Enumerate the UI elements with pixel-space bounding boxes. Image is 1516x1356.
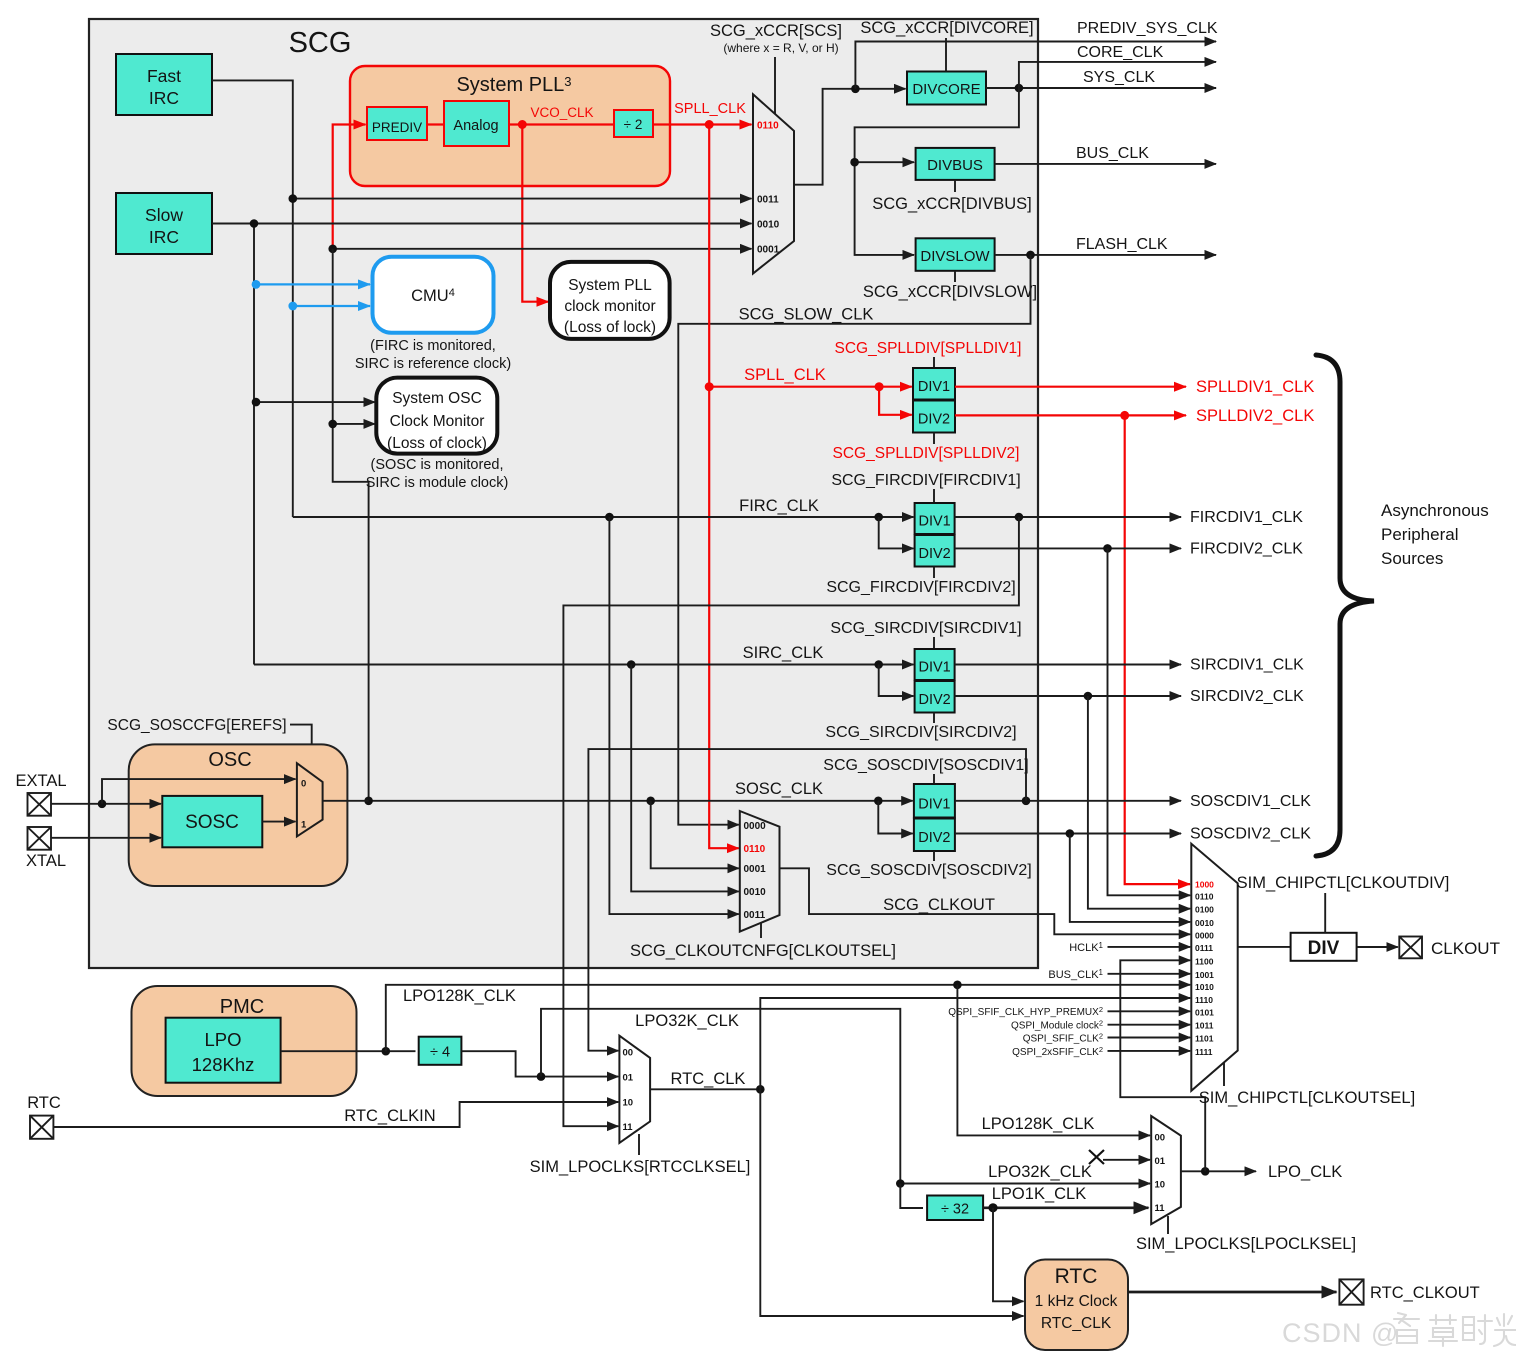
svg-text:FIRCDIV1_CLK: FIRCDIV1_CLK — [1190, 509, 1303, 526]
wire div4 out to RTCCLKSEL 01 — [461, 1051, 618, 1076]
block System PLL clock monitor — [550, 262, 670, 339]
block Analog — [444, 101, 509, 146]
svg-text:DIVBUS: DIVBUS — [927, 157, 983, 174]
svg-text:PMC: PMC — [220, 996, 264, 1018]
wire PREDIV_SYS_CLK — [855, 42, 1216, 89]
svg-text:RTC_CLKOUT: RTC_CLKOUT — [1370, 1284, 1480, 1302]
svg-text:0111: 0111 — [1195, 943, 1213, 953]
svg-text:QSPI_2xSFIF_CLK2: QSPI_2xSFIF_CLK2 — [1012, 1045, 1103, 1058]
svg-text:(FIRC is monitored,: (FIRC is monitored, — [370, 338, 496, 354]
wire SOSC_CLK row to DIV1 — [369, 800, 913, 802]
svg-text:RTC: RTC — [1055, 1265, 1098, 1288]
symbol XTAL pad — [28, 827, 52, 850]
junction DIVBUS input — [850, 158, 859, 167]
svg-text:IRC: IRC — [149, 227, 179, 247]
wire SOSCDIV1_CLK output — [955, 800, 1181, 802]
svg-text:1111: 1111 — [1195, 1047, 1213, 1057]
svg-text:PREDIV_SYS_CLK: PREDIV_SYS_CLK — [1077, 20, 1218, 37]
svg-text:PREDIV: PREDIV — [372, 120, 422, 135]
svg-text:LPO_CLK: LPO_CLK — [1268, 1163, 1342, 1181]
wire FIRCDIV1_CLK output — [955, 516, 1181, 518]
wire SIRC_CLK row to DIV1 — [254, 664, 913, 666]
leader SIRCDIV2 register — [933, 713, 935, 724]
wire SOSC vertical from OSC output up — [333, 249, 369, 801]
block SOSC DIV2 — [914, 819, 955, 852]
svg-text:00: 00 — [623, 1048, 634, 1059]
wire SIRC to OSC monitor — [256, 401, 375, 403]
svg-text:÷ 32: ÷ 32 — [941, 1202, 969, 1218]
block RTC — [1025, 1260, 1128, 1351]
wire LPO32K to LPOCLKSEL 10 — [900, 1183, 1150, 1185]
svg-text:128Khz: 128Khz — [192, 1054, 255, 1075]
junction VCO_CLK — [518, 120, 527, 129]
block FIRC DIV1 — [915, 503, 955, 534]
leader LPOCLKSEL register — [1167, 1216, 1169, 1234]
svg-text:HCLK1: HCLK1 — [1069, 941, 1103, 954]
svg-text:0110: 0110 — [744, 844, 766, 855]
svg-text:0010: 0010 — [1195, 918, 1214, 928]
svg-text:DIV: DIV — [1308, 938, 1340, 959]
svg-text:SCG_SPLLDIV[SPLLDIV2]: SCG_SPLLDIV[SPLLDIV2] — [833, 445, 1020, 462]
svg-text:SYS_CLK: SYS_CLK — [1083, 69, 1155, 86]
wire FIRCDIV2 feedback to CLKOUTSEL 0110 — [1108, 548, 1191, 895]
symbol RTC pad — [30, 1116, 53, 1139]
wire FIRCDIV2_CLK output — [955, 547, 1181, 549]
junction LPO128K branch down — [953, 981, 962, 990]
wire FIRCDIV1 branch to RTCCLKSEL 11 — [563, 517, 1019, 1126]
svg-text:Fast: Fast — [147, 66, 181, 86]
wire RTC_CLKOUT (thick) — [1128, 1291, 1337, 1294]
wire SOSC to OSC monitor — [333, 423, 375, 425]
svg-text:FIRCDIV2_CLK: FIRCDIV2_CLK — [1190, 541, 1303, 558]
wire SOSCDIV1 branch to RTCCLKSEL 00 — [588, 749, 1026, 1051]
svg-text:DIV1: DIV1 — [918, 660, 950, 676]
svg-text:SPLLDIV1_CLK: SPLLDIV1_CLK — [1196, 378, 1314, 396]
svg-text:LPO32K_CLK: LPO32K_CLK — [635, 1012, 739, 1030]
svg-text:0001: 0001 — [744, 864, 767, 875]
svg-text:11: 11 — [623, 1122, 634, 1133]
block divide-by-4 — [419, 1037, 462, 1065]
svg-text:10: 10 — [623, 1098, 634, 1109]
svg-text:0010: 0010 — [757, 220, 780, 231]
svg-text:SIRCDIV1_CLK: SIRCDIV1_CLK — [1190, 657, 1304, 674]
svg-text:1100: 1100 — [1195, 956, 1214, 966]
block SIRC DIV2 — [915, 681, 955, 713]
svg-text:DIV1: DIV1 — [918, 514, 950, 530]
wire FIRC_CLK row to DIV1 — [293, 516, 914, 518]
svg-text:CMU4: CMU4 — [411, 287, 455, 305]
brace Asynchronous Peripheral Sources — [1316, 355, 1374, 856]
svg-text:clock monitor: clock monitor — [564, 298, 655, 315]
wire DIVCORE feedback to DIVBUS and DIVSLOW — [855, 88, 1019, 162]
wire SOSC up red segment into PREDIV — [333, 125, 366, 249]
svg-text:CLKOUT: CLKOUT — [1431, 939, 1500, 958]
svg-text:EXTAL: EXTAL — [15, 772, 66, 790]
wire SCG_CLKOUT output to CLKOUTSEL 0000 — [780, 868, 1191, 934]
wire PREDIV to Analog (red) — [427, 123, 444, 125]
svg-text:LPO1K_CLK: LPO1K_CLK — [992, 1185, 1086, 1203]
leader CLKOUTCNFG register — [760, 923, 762, 938]
block DIV — [1291, 933, 1357, 961]
svg-text:SIRCDIV2_CLK: SIRCDIV2_CLK — [1190, 688, 1304, 705]
svg-text:SCG_CLKOUTCNFG[CLKOUTSEL]: SCG_CLKOUTCNFG[CLKOUTSEL] — [630, 942, 896, 960]
wire SOSC branch to SCG CLKOUT mux 0001 — [651, 801, 739, 869]
wire FIRC vertical down to FIRC_CLK row — [292, 199, 294, 517]
svg-text:LPO128K_CLK: LPO128K_CLK — [982, 1115, 1095, 1133]
svg-text:10: 10 — [1155, 1180, 1166, 1191]
block DIVSLOW — [916, 238, 995, 270]
wire SOSC to DIV2 — [878, 801, 912, 834]
svg-text:0100: 0100 — [1195, 905, 1214, 915]
svg-text:DIVSLOW: DIVSLOW — [920, 248, 990, 265]
svg-text:SOSC: SOSC — [185, 812, 239, 833]
block PMC container — [132, 986, 357, 1096]
symbol CLKOUT pad — [1399, 937, 1422, 959]
wire SPLLDIV2 red feedback to CLKOUTSEL 1000 — [1125, 415, 1190, 884]
wire SPLL to DIV2 — [879, 387, 912, 415]
wire LPO128K_CLK up and right to CLKOUTSEL 1010 — [386, 985, 1190, 1051]
wire SCG_SLOW_CLK to CLKOUT mux 0000 — [678, 255, 1030, 825]
svg-text:SIRC is reference clock): SIRC is reference clock) — [355, 356, 511, 372]
wire QSPI_SFIF_CLK_HYP_PREMUX input 0101 — [1108, 1010, 1191, 1012]
wire DIV to CLKOUT pad — [1357, 946, 1398, 948]
svg-text:SIM_CHIPCTL[CLKOUTSEL]: SIM_CHIPCTL[CLKOUTSEL] — [1199, 1089, 1415, 1107]
wire SPLL_CLK red vertical to CLKOUT mux 0110 — [709, 125, 739, 849]
wire LPO32K down into div32 — [900, 1184, 923, 1209]
svg-text:DIV1: DIV1 — [918, 797, 950, 813]
svg-text:DIV2: DIV2 — [918, 692, 950, 708]
svg-text:RTC_CLKIN: RTC_CLKIN — [344, 1107, 435, 1125]
leader RTCCLKSEL register — [638, 1134, 640, 1155]
wire SOSCDIV2_CLK output — [955, 833, 1181, 835]
svg-text:RTC_CLK: RTC_CLK — [671, 1070, 746, 1088]
wire CORE_CLK — [1019, 62, 1216, 88]
svg-text:SIRC_CLK: SIRC_CLK — [743, 644, 824, 662]
block divide-by-32 — [927, 1196, 983, 1221]
svg-text:1 kHz Clock: 1 kHz Clock — [1035, 1293, 1118, 1310]
svg-text:Clock Monitor: Clock Monitor — [390, 413, 485, 430]
block PREDIV — [367, 107, 427, 140]
leader SCS label to mux — [774, 57, 776, 114]
leader CLKOUTSEL register — [1223, 1063, 1225, 1086]
wire LPO_CLK feedback up to CLKOUTSEL 1100 — [1120, 960, 1205, 1171]
svg-text:SCG_FIRCDIV[FIRCDIV1]: SCG_FIRCDIV[FIRCDIV1] — [831, 472, 1020, 489]
svg-text:XTAL: XTAL — [26, 852, 66, 870]
block Slow IRC — [116, 193, 212, 254]
svg-text:1001: 1001 — [1195, 970, 1214, 980]
mux SCS (system clock select) — [753, 94, 794, 273]
svg-text:0010: 0010 — [744, 887, 767, 898]
block DIVCORE — [907, 72, 986, 105]
wire BUS_CLK — [995, 163, 1216, 165]
svg-text:QSPI_SFIF_CLK_HYP_PREMUX2: QSPI_SFIF_CLK_HYP_PREMUX2 — [948, 1005, 1103, 1018]
svg-text:Analog: Analog — [453, 118, 498, 134]
wire SIRC to DIV2 — [879, 665, 914, 697]
wire SOSC to OSC mux input 1 — [262, 821, 295, 823]
svg-text:DIV2: DIV2 — [918, 830, 950, 846]
wire LPO output to div4 — [281, 1050, 416, 1052]
block SOSC — [162, 796, 262, 847]
svg-text:(Loss of lock): (Loss of lock) — [564, 319, 656, 336]
svg-text:QSPI_Module clock2: QSPI_Module clock2 — [1011, 1019, 1103, 1032]
block OSC container — [129, 744, 348, 886]
wire SPLLDIV2_CLK output — [955, 414, 1186, 416]
wire HCLK input 0111 — [1108, 946, 1191, 948]
block divide-by-2 — [614, 110, 653, 137]
svg-text:0110: 0110 — [757, 121, 779, 132]
svg-text:CSDN @: CSDN @ — [1282, 1318, 1399, 1348]
wire EXTAL to SOSC — [51, 803, 161, 805]
wire SIRCDIV1_CLK output — [955, 664, 1181, 666]
svg-text:FLASH_CLK: FLASH_CLK — [1076, 236, 1168, 253]
svg-text:SOSCDIV2_CLK: SOSCDIV2_CLK — [1190, 826, 1311, 843]
wire FIRC to DIV2 — [879, 517, 914, 548]
junction DIVCORE output — [1015, 84, 1024, 93]
wire FIRC to CMU (blue) — [293, 305, 370, 307]
block System PLL container — [350, 66, 670, 186]
symbol X not-available — [1089, 1150, 1104, 1164]
junction FIRC at 0011 row — [289, 194, 298, 203]
block SOSC DIV1 — [914, 784, 955, 818]
wire FLASH_CLK — [995, 254, 1216, 256]
watermark CSDN — [1282, 1313, 1516, 1348]
wire SIRCDIV2_CLK output — [955, 695, 1181, 697]
svg-text:SCG_CLKOUT: SCG_CLKOUT — [883, 896, 995, 914]
svg-text:DIV2: DIV2 — [918, 412, 950, 428]
junction DIVSLOW output — [1026, 251, 1035, 260]
svg-text:SPLL_CLK: SPLL_CLK — [744, 366, 826, 384]
wire SIRC to CMU (blue) — [256, 283, 370, 285]
mux RTCCLKSEL — [619, 1036, 650, 1143]
svg-text:÷ 4: ÷ 4 — [430, 1045, 450, 1061]
SCG module box — [89, 19, 1038, 968]
svg-text:RTC: RTC — [27, 1094, 61, 1112]
block LPO 128Khz — [166, 1018, 281, 1083]
svg-text:DIVCORE: DIVCORE — [912, 81, 980, 98]
wire SPLLDIV1_CLK output — [955, 386, 1186, 388]
svg-text:RTC_CLK: RTC_CLK — [1041, 1315, 1112, 1332]
svg-text:SCG_SPLLDIV[SPLLDIV1]: SCG_SPLLDIV[SPLLDIV1] — [835, 340, 1022, 357]
wire div32 down to RTC block — [993, 1208, 1024, 1302]
svg-text:SOSCDIV1_CLK: SOSCDIV1_CLK — [1190, 793, 1311, 810]
svg-text:SIM_LPOCLKS[RTCCLKSEL]: SIM_LPOCLKS[RTCCLKSEL] — [530, 1158, 751, 1176]
wire LPO_CLK output — [1181, 1170, 1256, 1172]
wire FIRC branch to SCG CLKOUT mux 0011 — [609, 517, 738, 914]
wire DIVCORE output SYS_CLK — [986, 87, 1216, 89]
svg-text:SCG_SIRCDIV[SIRCDIV1]: SCG_SIRCDIV[SIRCDIV1] — [830, 620, 1021, 637]
wire VCO_CLK down to PLL monitor (red) — [522, 125, 548, 302]
block DIVBUS — [916, 148, 995, 180]
wire SPLL_CLK row to DIV1 — [709, 386, 912, 388]
svg-text:(where x = R, V, or H): (where x = R, V, or H) — [723, 41, 838, 55]
leader FIRCDIV2 register — [933, 567, 935, 579]
svg-text:SPLLDIV2_CLK: SPLLDIV2_CLK — [1196, 407, 1314, 425]
svg-text:Sources: Sources — [1381, 549, 1443, 568]
svg-text:LPO32K_CLK: LPO32K_CLK — [988, 1163, 1092, 1181]
svg-text:Peripheral: Peripheral — [1381, 525, 1459, 544]
svg-text:SCG_FIRCDIV[FIRCDIV2]: SCG_FIRCDIV[FIRCDIV2] — [826, 579, 1015, 596]
wire Analog to div2 to mux 0110 (red) — [509, 123, 614, 125]
svg-text:VCO_CLK: VCO_CLK — [530, 105, 593, 120]
svg-text:LPO: LPO — [204, 1029, 241, 1050]
svg-text:0000: 0000 — [1195, 930, 1214, 940]
svg-text:Asynchronous: Asynchronous — [1381, 501, 1489, 520]
svg-text:SIM_CHIPCTL[CLKOUTDIV]: SIM_CHIPCTL[CLKOUTDIV] — [1237, 874, 1450, 892]
symbol RTC_CLKOUT pad — [1339, 1279, 1363, 1304]
svg-text:0110: 0110 — [1195, 891, 1214, 901]
svg-text:0011: 0011 — [744, 910, 766, 921]
svg-text:System OSC: System OSC — [392, 390, 482, 407]
wire Slow IRC to SCS mux input 0010 — [212, 223, 752, 225]
wire SIRCDIV2 feedback to CLKOUTSEL 0100 — [1088, 696, 1190, 909]
svg-text:QSPI_SFIF_CLK2: QSPI_SFIF_CLK2 — [1023, 1032, 1103, 1045]
block SPLL DIV2 — [913, 401, 955, 433]
svg-text:DIV2: DIV2 — [918, 546, 950, 562]
wire QSPI_SFIF_CLK input 1101 — [1108, 1037, 1191, 1039]
block SIRC DIV1 — [915, 649, 955, 680]
svg-text:00: 00 — [1155, 1133, 1166, 1144]
wire QSPI_2xSFIF_CLK input 1111 — [1108, 1050, 1191, 1052]
svg-text:SCG_SOSCDIV[SOSCDIV2]: SCG_SOSCDIV[SOSCDIV2] — [826, 862, 1031, 879]
svg-text:Slow: Slow — [145, 205, 183, 225]
block System OSC Clock Monitor — [376, 378, 497, 454]
svg-text:SCG_SLOW_CLK: SCG_SLOW_CLK — [739, 306, 874, 324]
block Fast IRC — [116, 54, 212, 115]
wire QSPI_Module clock input 1011 — [1108, 1024, 1191, 1026]
svg-text:(Loss of clock): (Loss of clock) — [387, 435, 487, 452]
junction SIRC at Slow IRC output — [250, 219, 259, 228]
wire RTC_CLKIN to RTCCLKSEL 10 — [53, 1102, 618, 1127]
svg-text:1: 1 — [301, 820, 307, 831]
wire RTC_CLK down to RTC block — [760, 1089, 1023, 1316]
wire SOSCDIV2 feedback to CLKOUTSEL 0010 — [1070, 834, 1190, 922]
leader EREFS to OSC mux — [290, 725, 312, 774]
stub LPOCLKSEL 01 with X — [1103, 1159, 1150, 1161]
block FIRC DIV2 — [915, 535, 955, 567]
svg-text:1110: 1110 — [1195, 995, 1213, 1005]
svg-text:LPO128K_CLK: LPO128K_CLK — [403, 987, 516, 1005]
svg-text:SCG_xCCR[SCS]: SCG_xCCR[SCS] — [710, 22, 842, 40]
block SPLL DIV1 — [913, 368, 955, 400]
wire LPO128K down to LPOCLKSEL 00 — [957, 985, 1150, 1136]
svg-text:SCG_SIRCDIV[SIRCDIV2]: SCG_SIRCDIV[SIRCDIV2] — [825, 724, 1016, 741]
block CMU — [373, 257, 494, 333]
svg-text:SCG_SOSCCFG[EREFS]: SCG_SOSCCFG[EREFS] — [107, 717, 286, 734]
svg-text:OSC: OSC — [208, 749, 251, 771]
svg-text:BUS_CLK: BUS_CLK — [1076, 145, 1149, 162]
symbol EXTAL pad — [28, 793, 52, 816]
leader SPLLDIV2 register — [933, 433, 935, 445]
leader CLKOUTDIV register — [1324, 893, 1326, 933]
svg-text:1010: 1010 — [1195, 982, 1214, 992]
svg-text:System PLL3: System PLL3 — [456, 74, 571, 96]
svg-text:SIRC is module clock): SIRC is module clock) — [366, 475, 509, 491]
svg-text:SOSC_CLK: SOSC_CLK — [735, 780, 823, 798]
mux LPOCLKSEL — [1151, 1116, 1181, 1224]
svg-text:01: 01 — [623, 1073, 634, 1084]
wire Fast IRC to SCS mux input 0011 — [212, 80, 752, 198]
leader DIVSLOW register — [954, 271, 956, 282]
svg-text:SCG_xCCR[DIVBUS]: SCG_xCCR[DIVBUS] — [872, 195, 1032, 213]
svg-text:(SOSC is monitored,: (SOSC is monitored, — [371, 457, 504, 473]
junction LPO32K branch — [537, 1072, 546, 1081]
svg-text:0001: 0001 — [757, 245, 780, 256]
svg-text:0101: 0101 — [1195, 1007, 1214, 1017]
svg-text:0000: 0000 — [744, 821, 767, 832]
wire SOSC node to SCS mux input 0001 — [333, 248, 752, 250]
leader DIVBUS register — [954, 180, 956, 192]
svg-text:SCG_xCCR[DIVCORE]: SCG_xCCR[DIVCORE] — [860, 19, 1033, 37]
svg-text:DIV1: DIV1 — [918, 379, 950, 395]
junction SOSC at 0001 row — [328, 245, 337, 254]
svg-text:SCG: SCG — [289, 27, 352, 59]
wire SCS mux output to DIVCORE — [794, 89, 906, 185]
svg-text:FIRC_CLK: FIRC_CLK — [739, 497, 819, 515]
wire RTC_CLK output — [650, 1088, 760, 1090]
svg-text:1000: 1000 — [1195, 879, 1214, 889]
wire OSC mux output — [323, 800, 369, 802]
svg-text:01: 01 — [1155, 1156, 1166, 1167]
svg-text:÷ 2: ÷ 2 — [624, 117, 643, 132]
wire RTC_CLK up to CLKOUTSEL 1110 — [760, 998, 1190, 1089]
junction SPLL_CLK before mux — [705, 120, 714, 129]
svg-text:1101: 1101 — [1195, 1034, 1214, 1044]
svg-text:SIM_LPOCLKS[LPOCLKSEL]: SIM_LPOCLKS[LPOCLKSEL] — [1136, 1235, 1356, 1253]
svg-text:11: 11 — [1155, 1203, 1166, 1214]
svg-text:SPLL_CLK: SPLL_CLK — [674, 101, 746, 117]
leader SOSCDIV2 register — [933, 851, 935, 861]
svg-text:0: 0 — [301, 779, 306, 790]
wire SIRC branch to SCG CLKOUT mux 0010 — [631, 665, 739, 892]
svg-text:SCG_xCCR[DIVSLOW]: SCG_xCCR[DIVSLOW] — [863, 283, 1037, 301]
wire LPO1K_CLK to LPOCLKSEL 11 (thick) — [983, 1206, 1148, 1209]
wire EXTAL to OSC mux input 0 — [102, 779, 296, 804]
leader DIVCORE label — [945, 38, 947, 72]
wire BUS_CLK input 1001 — [1108, 973, 1191, 975]
svg-text:BUS_CLK1: BUS_CLK1 — [1048, 968, 1103, 981]
wire LPO32K up over and down — [541, 1009, 900, 1184]
svg-text:SCG_SOSCDIV[SOSCDIV1]: SCG_SOSCDIV[SOSCDIV1] — [823, 757, 1028, 774]
wire XTAL to SOSC — [51, 837, 161, 839]
svg-text:CORE_CLK: CORE_CLK — [1077, 44, 1164, 61]
svg-text:0011: 0011 — [757, 195, 779, 206]
junction EXTAL branch — [98, 800, 107, 809]
wire SIRC vertical down to SIRC_CLK row — [253, 224, 255, 665]
svg-text:System PLL: System PLL — [568, 277, 652, 294]
mux OSC bypass — [297, 763, 323, 836]
wire mux output to DIV — [1238, 946, 1291, 948]
svg-text:IRC: IRC — [149, 88, 179, 108]
svg-text:1011: 1011 — [1195, 1021, 1214, 1031]
junction DIVCORE input — [851, 85, 860, 94]
